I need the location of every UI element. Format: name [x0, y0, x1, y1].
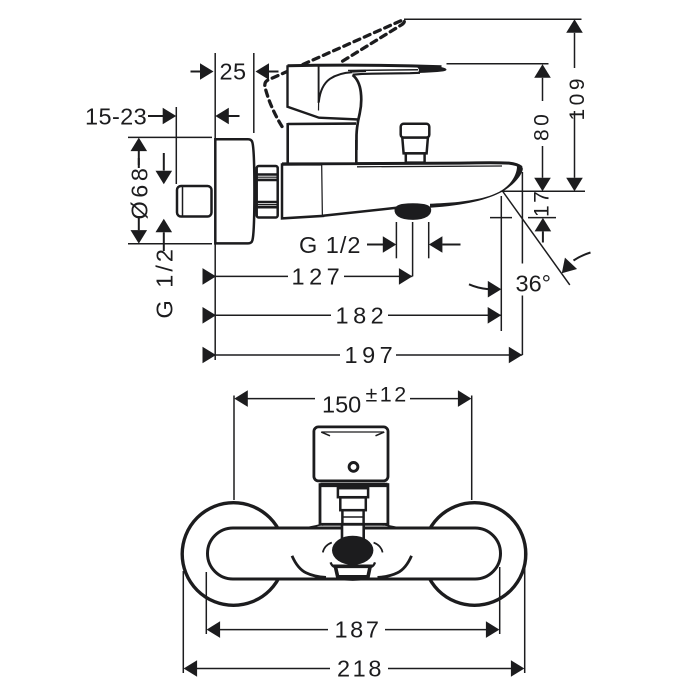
union nut — [257, 166, 278, 218]
lever tip filled — [414, 65, 446, 73]
dim 80 — [534, 64, 551, 78]
dim 187 — [205, 572, 207, 634]
svg-text:197: 197 — [345, 342, 398, 368]
escutcheon flange (side) — [215, 139, 254, 243]
svg-text:187: 187 — [335, 617, 382, 643]
G1/2 wall nipple — [177, 186, 212, 217]
body cone — [282, 164, 323, 218]
dim 127 — [203, 268, 217, 285]
svg-text:218: 218 — [337, 656, 384, 682]
svg-text:G 1/2: G 1/2 — [299, 232, 361, 258]
lever inner underside line — [348, 69, 418, 72]
handle/bonnet right edge curve — [353, 75, 362, 150]
svg-text:109: 109 — [566, 75, 589, 121]
lever underside — [353, 73, 420, 75]
handle cap outline — [288, 65, 359, 119]
side horn curves — [323, 543, 332, 553]
body tube capsule — [208, 528, 501, 579]
diverter stack (front) — [338, 488, 368, 497]
svg-text:G 1/2: G 1/2 — [152, 246, 178, 318]
svg-text:80: 80 — [531, 111, 554, 141]
dim 182 — [203, 307, 217, 324]
36 degree construction line — [503, 192, 570, 285]
spout body — [322, 163, 522, 216]
inner shoulder arc left — [322, 524, 342, 525]
spout end extension line (182) — [500, 196, 502, 331]
svg-text:150: 150 — [322, 391, 361, 417]
dim Ø68 — [128, 136, 212, 138]
inner shoulder arc right — [364, 524, 384, 525]
lever raised position (dashed) — [265, 20, 404, 127]
spout tip and underside thick band — [430, 166, 523, 208]
dim 109 — [566, 19, 583, 33]
left wall escutcheon circle — [182, 503, 285, 606]
svg-text:Ø68: Ø68 — [127, 165, 153, 220]
handle inner swoosh curve — [319, 72, 352, 102]
spout outlet ellipse — [332, 536, 373, 565]
spout outlet reference line — [501, 190, 585, 192]
dim 17 — [490, 217, 556, 219]
spout cone shoulder arcs — [305, 523, 342, 528]
spout top edge — [282, 163, 522, 168]
svg-text:15-23: 15-23 — [85, 103, 147, 129]
wall line — [214, 53, 216, 360]
finished wall line (15-23) — [175, 107, 177, 184]
diverter knob — [401, 124, 430, 138]
aerator (front) — [335, 566, 370, 577]
spout tip extension line (197) — [521, 172, 523, 355]
extension line from lever top (80 ref) — [447, 63, 549, 65]
spout neck (front) — [343, 524, 363, 539]
spout underside left of aerator — [323, 208, 397, 216]
handle inner vertical line — [318, 67, 320, 104]
spout inner top line — [357, 165, 502, 168]
spout flare silhouette arcs — [292, 556, 326, 578]
dim nipple G1/2 vertical arrows — [163, 153, 165, 171]
svg-text:25: 25 — [220, 59, 247, 85]
svg-text:17: 17 — [531, 189, 554, 217]
svg-text:127: 127 — [292, 264, 345, 290]
dim 218 — [182, 571, 184, 673]
lever top edge (thick) — [288, 65, 442, 67]
handle cap (front) — [314, 427, 388, 481]
svg-text:±12: ±12 — [366, 383, 409, 407]
svg-text:36°: 36° — [516, 270, 552, 296]
36 deg arc arrow right — [556, 258, 577, 279]
cartridge bonnet (front) — [320, 485, 388, 525]
right wall escutcheon circle — [423, 503, 526, 606]
flange front extension line (25) — [253, 53, 255, 133]
dim 25 — [191, 71, 202, 73]
svg-text:182: 182 — [336, 302, 389, 328]
aerator blob — [394, 203, 431, 220]
handle screw dot — [349, 463, 358, 472]
cartridge bonnet (top view) — [288, 123, 357, 163]
dim 150 +-12 — [233, 396, 235, 501]
dim 197 — [203, 347, 217, 364]
36 deg arc arrow left — [469, 284, 488, 289]
extension line from raised lever tip (109 ref) — [404, 18, 582, 20]
handle + bonnet silhouette fill — [288, 65, 446, 162]
